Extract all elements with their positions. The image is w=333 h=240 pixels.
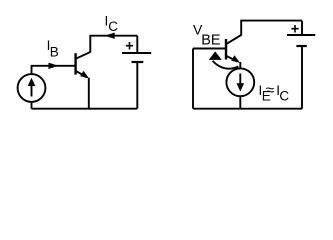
label IE approx IC (259, 82, 290, 103)
wire: Q1 emitter down to bottom wire (88, 78, 90, 109)
current source IB (circle) (18, 74, 46, 102)
svg-text:≈: ≈ (266, 82, 275, 99)
battery V2 top lead (301, 21, 303, 35)
battery V2 bottom lead (301, 46, 303, 109)
wire: current source bottom to bottom wire (239, 96, 241, 109)
label IB (47, 38, 59, 59)
bottom wire left circuit (32, 108, 138, 110)
label IC (105, 14, 119, 35)
VBE curved arrow arc (213, 61, 239, 69)
current source IB internal up arrow (28, 78, 36, 97)
wire: current source bottom to bottom wire (31, 102, 33, 109)
svg-text:B: B (50, 44, 59, 59)
wire: left vertical of right circuit (192, 49, 194, 109)
IB current arrowhead on base wire (49, 63, 59, 69)
wire: Q2 emitter to current source top (239, 62, 241, 69)
svg-text:C: C (108, 19, 118, 34)
transistor Q1 base bar (74, 53, 76, 74)
transistor Q1 collector slant (76, 52, 91, 59)
battery V2 long plate (+) (287, 34, 315, 36)
current source IE (circle) (226, 68, 254, 96)
battery V1 short plate (-) (132, 61, 144, 63)
bottom wire right circuit (193, 108, 302, 110)
battery V2 short plate (-) (296, 45, 306, 47)
base wire of Q2 (193, 48, 226, 50)
transistor Q2 base bar (225, 39, 227, 60)
IC current arrowhead on top wire (pointing left) (105, 33, 115, 39)
transistor Q2 collector slant (226, 35, 241, 44)
battery V1 top lead (136, 36, 138, 53)
label VBE (193, 22, 221, 49)
svg-text:BE: BE (201, 32, 221, 48)
wire: Q1 collector up to top wire (90, 36, 137, 53)
svg-text:C: C (279, 88, 289, 103)
battery V1 bottom lead (136, 62, 138, 109)
wire: current source top to base corner (32, 66, 76, 74)
svg-text:+: + (125, 38, 133, 54)
current source IE internal down arrow (237, 74, 245, 92)
battery V1 long plate (+) (122, 52, 151, 54)
VBE arrowhead (pointing up at base wire) (209, 51, 222, 60)
wire: Q2 collector up and right to battery (241, 21, 302, 36)
transistor Q1 emitter slant with arrow (76, 71, 89, 79)
transistor Q2 emitter slant with arrow (226, 55, 240, 63)
svg-text:+: + (291, 21, 299, 37)
